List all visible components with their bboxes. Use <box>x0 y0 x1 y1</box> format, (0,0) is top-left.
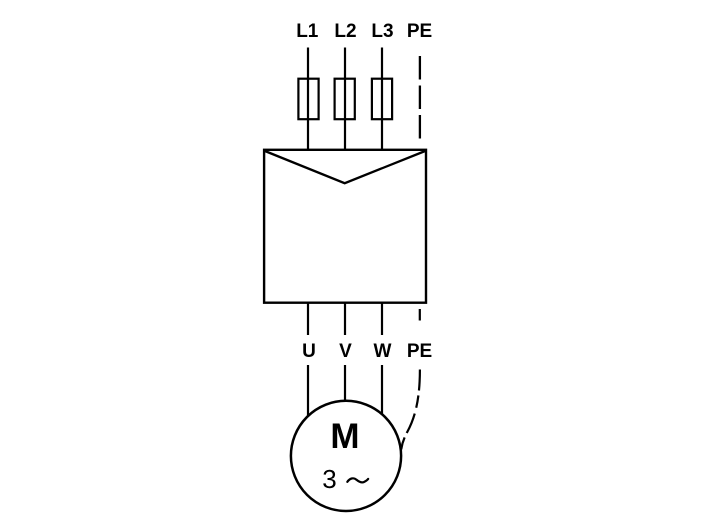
svg-text:PE: PE <box>407 21 432 42</box>
svg-text:3: 3 <box>322 464 336 494</box>
svg-text:M: M <box>330 417 359 456</box>
svg-text:L3: L3 <box>371 21 393 42</box>
svg-text:U: U <box>302 341 316 362</box>
svg-text:V: V <box>339 341 352 362</box>
svg-text:L1: L1 <box>296 21 319 42</box>
svg-text:W: W <box>374 341 392 362</box>
svg-text:L2: L2 <box>334 21 356 42</box>
svg-text:PE: PE <box>407 341 432 362</box>
